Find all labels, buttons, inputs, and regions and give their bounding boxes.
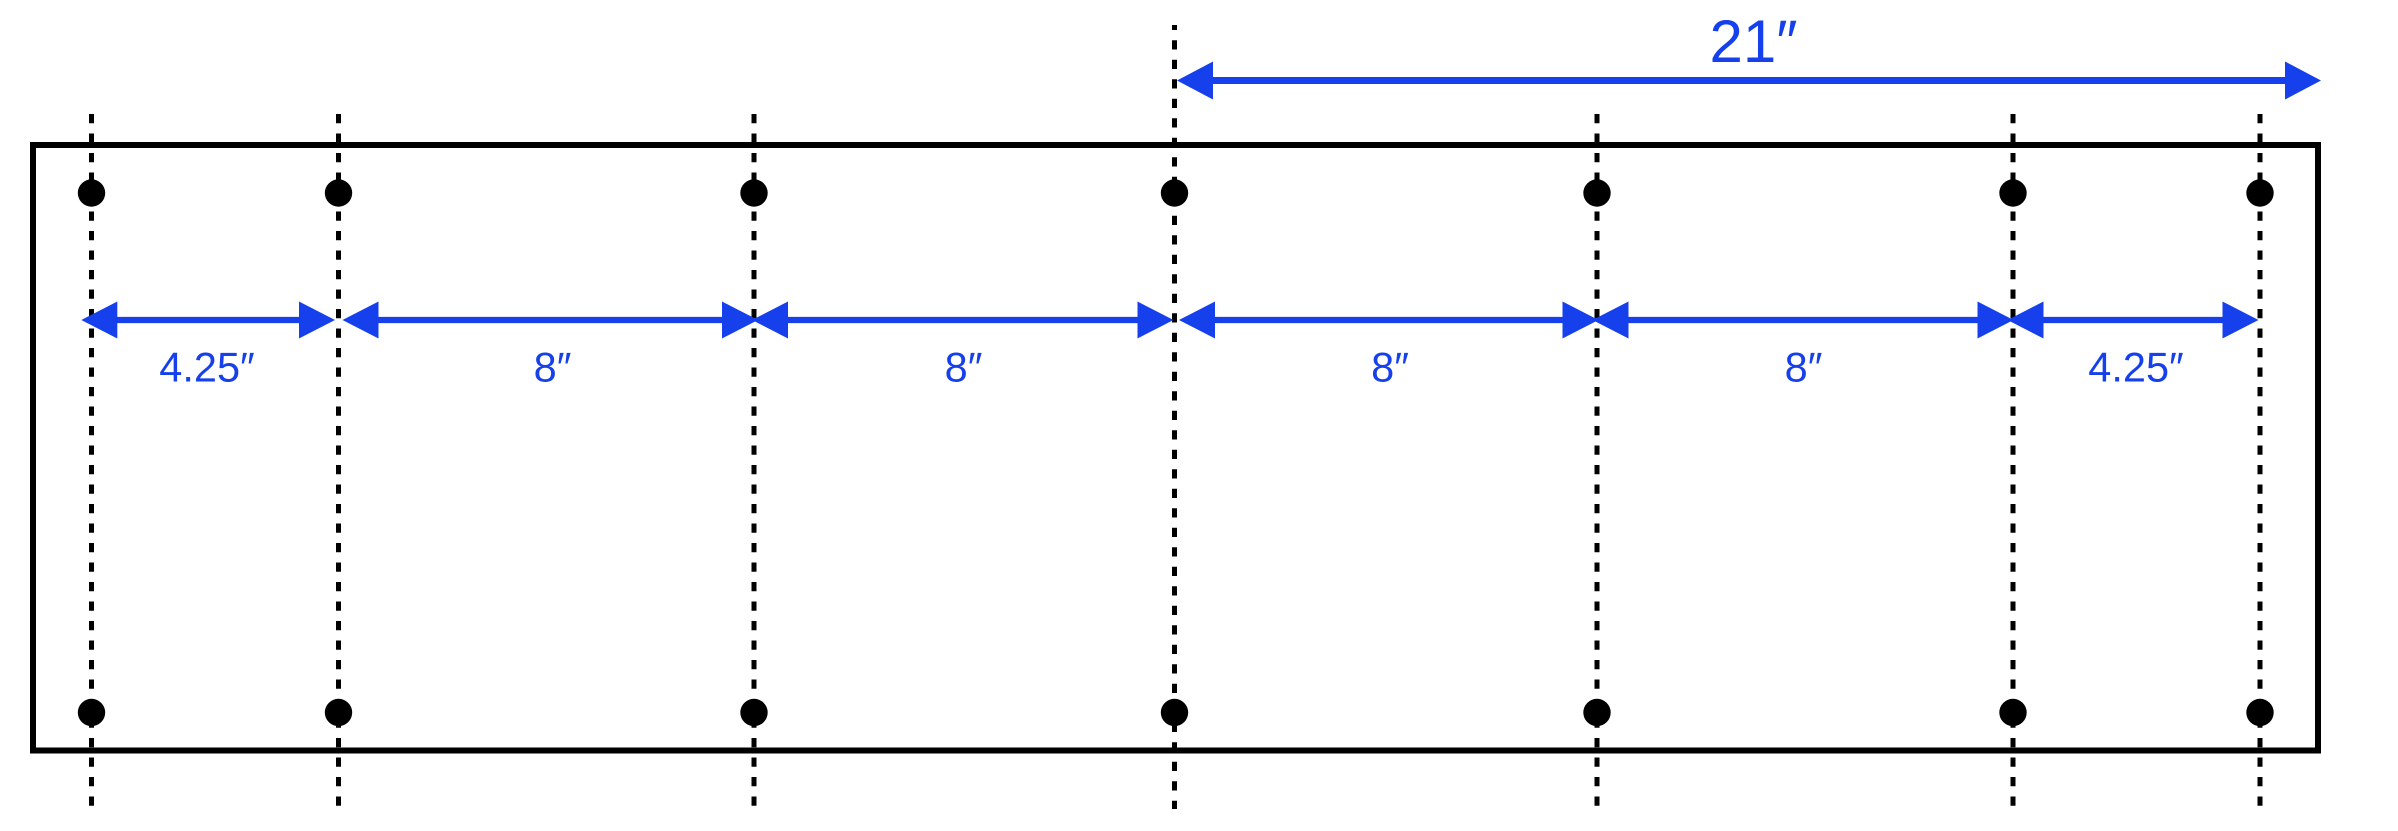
centerline 7 (dashed) [2258, 114, 2263, 809]
centerline 1 (dashed) [89, 114, 94, 809]
hole dot bottom 7 [2246, 699, 2273, 726]
svg-text:8″: 8″ [1371, 344, 1409, 391]
centerline 4 (dashed) [1172, 25, 1177, 809]
svg-text:8″: 8″ [534, 344, 572, 391]
dimension arrow 4.25&quot; (right) [2008, 302, 2259, 339]
hole dot top 3 [740, 179, 767, 206]
dimension arrow 8&quot; #1 [343, 302, 759, 339]
hole dot bottom 6 [1999, 699, 2026, 726]
dimension arrow 4.25&quot; (left) [81, 302, 335, 339]
hole dot top 5 [1583, 179, 1610, 206]
hole dot top 4 [1161, 179, 1188, 206]
hole dot bottom 3 [740, 699, 767, 726]
centerline 6 (dashed) [2011, 114, 2016, 809]
hole dot bottom 1 [78, 699, 105, 726]
svg-text:8″: 8″ [1785, 344, 1823, 391]
svg-text:21″: 21″ [1710, 8, 1798, 75]
hole dot top 1 [78, 179, 105, 206]
dimension arrow 8&quot; #4 [1593, 302, 2014, 339]
svg-text:4.25″: 4.25″ [159, 344, 254, 391]
hole dot top 2 [325, 179, 352, 206]
hole dot top 6 [1999, 179, 2026, 206]
hole dot bottom 4 [1161, 699, 1188, 726]
centerline 5 (dashed) [1595, 114, 1600, 809]
svg-text:4.25″: 4.25″ [2088, 344, 2183, 391]
dimension arrow 21&quot; (top) [1177, 62, 2321, 100]
centerline 2 (dashed) [336, 114, 341, 809]
hole dot bottom 5 [1583, 699, 1610, 726]
dimension arrow 8&quot; #2 [752, 302, 1174, 339]
dimension arrow 8&quot; #3 [1179, 302, 1599, 339]
centerline 3 (dashed) [752, 114, 757, 809]
svg-text:8″: 8″ [945, 344, 983, 391]
panel outline rectangle [33, 145, 2318, 751]
hole dot top 7 [2246, 179, 2273, 206]
hole dot bottom 2 [325, 699, 352, 726]
